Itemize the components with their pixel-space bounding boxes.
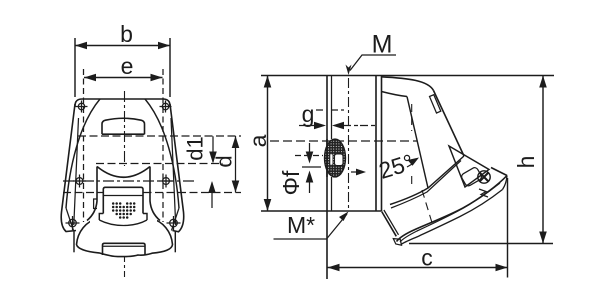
screw bottom-right (167, 216, 181, 230)
dimension e arrowheads (84, 74, 163, 82)
wall line over grommet (326, 139, 328, 177)
phi-f solid mark (302, 166, 321, 168)
M* leader (274, 214, 348, 239)
right rim side line (174, 231, 176, 252)
body top edge (75, 99, 170, 106)
phi-f down arrow (309, 143, 311, 152)
svg-text:g: g (302, 101, 315, 127)
bottom-right corner chamfer (172, 208, 180, 231)
wall box inner wall line (331, 76, 333, 212)
face plate bottom waist curve (99, 220, 147, 226)
socket axis dashes vertical (411, 104, 413, 188)
M leader line (350, 55, 396, 71)
phi-f dashed mark (295, 155, 323, 157)
svg-text:h: h (513, 156, 539, 169)
dimension a arrowheads (264, 76, 272, 212)
body top right corner (382, 77, 434, 91)
face plate inner top edge (103, 195, 143, 197)
hinge triangle (449, 146, 489, 187)
dimension c line (328, 267, 508, 269)
face plate right step foot (143, 214, 147, 221)
face plate left step foot (99, 214, 103, 221)
svg-text:d1: d1 (183, 136, 208, 160)
face lower edge (390, 156, 464, 205)
top extension line (261, 75, 554, 77)
svg-text:M*: M* (287, 212, 315, 238)
svg-text:d: d (212, 155, 237, 167)
vertical centerline of front view (124, 91, 126, 277)
body outer right edge (170, 104, 184, 232)
left corner sliver mask (61, 104, 78, 232)
g leader dashes (316, 109, 344, 111)
body right edge (434, 91, 465, 157)
dimension e extension lines (dashed) (84, 69, 164, 222)
g dimension arrows (299, 125, 315, 127)
flange vertical lines (376, 76, 382, 212)
can concave top arc (97, 167, 150, 178)
lid middle curve (400, 183, 500, 242)
screw top-right (160, 101, 172, 113)
dimension d line (235, 136, 237, 193)
phi-f up arrow (309, 182, 311, 193)
reference line L2 (96, 163, 223, 165)
grommet white slot (335, 154, 344, 166)
heart pin pattern (112, 202, 136, 219)
lid lower curve (402, 190, 503, 245)
reference line L4 (63, 192, 241, 194)
body outer left edge (61, 104, 76, 232)
dimension e line (84, 77, 163, 79)
dimension d1 line with down arrow (212, 136, 214, 162)
dimension h line (542, 76, 544, 244)
can interior mask (90, 166, 157, 231)
screw mid-right (160, 175, 173, 188)
top window rounded rect (102, 118, 145, 134)
svg-text:c: c (421, 245, 433, 271)
latch slot (430, 95, 441, 113)
body inner right bevel edge (145, 99, 179, 208)
cable grommet (stippled) (325, 139, 346, 177)
collar bottom foot (393, 239, 401, 246)
reference line L3 through mid screws (63, 180, 197, 182)
screw bottom-left (66, 216, 80, 230)
body inner right parallel edge (171, 118, 176, 225)
M* leader arrow (339, 212, 349, 222)
c right extension line (507, 178, 509, 278)
horizontal dashed cable axis (270, 140, 417, 142)
bottom extension line of a / box bottom (261, 210, 382, 212)
lid end cap (503, 176, 508, 190)
small cable direction arrow (351, 171, 359, 173)
body inner left parallel edge (74, 118, 79, 225)
wall box left wall (326, 76, 328, 280)
screw top-left (76, 101, 88, 113)
lid upper curve (397, 176, 508, 242)
grommet white slit (330, 155, 332, 165)
screw mid-left (73, 175, 86, 188)
svg-text:a: a (245, 134, 271, 147)
dimension b line (75, 45, 170, 47)
svg-text:M: M (372, 31, 393, 59)
hinge knuckle (460, 166, 482, 187)
bottom label plate (103, 243, 146, 255)
dimension b arrowheads (75, 42, 170, 50)
collar bottom edge outer (382, 212, 397, 237)
face plate left tab (94, 199, 97, 209)
dimension b extension lines (75, 38, 170, 97)
socket face plate outer (103, 187, 143, 213)
bottom-left corner chamfer (66, 208, 74, 231)
can body right side (150, 167, 160, 221)
hinge screw (478, 171, 490, 183)
collar top inner line (382, 92, 408, 97)
hinge spring (479, 189, 488, 197)
collar bottom edge inner (384, 210, 399, 235)
bottom rim outline (77, 217, 173, 256)
svg-text:Φf: Φf (278, 170, 304, 195)
right corner sliver mask (170, 104, 184, 232)
reference line L1 (78, 135, 241, 137)
up arrow pointing to screw line (211, 183, 213, 209)
svg-text:b: b (120, 21, 133, 47)
c arrowheads (328, 264, 508, 272)
body inner left bevel edge (66, 99, 100, 208)
25 degrees arrow (407, 164, 413, 168)
M leader arrow (346, 65, 352, 76)
svg-text:e: e (121, 53, 134, 79)
bottom label plate inner top edge (103, 245, 146, 247)
socket axis dashes tilted (422, 190, 433, 226)
collar front face line (407, 97, 428, 189)
window bottom edge (102, 133, 145, 135)
dimension a line (267, 76, 269, 212)
can body left side (87, 167, 97, 221)
face lower edge parallel (391, 161, 461, 209)
h arrowheads (539, 76, 547, 244)
M vertical centerline (348, 78, 350, 209)
left rim side line (73, 231, 75, 252)
h bottom extension line (409, 243, 553, 245)
lid top edge (491, 168, 507, 176)
